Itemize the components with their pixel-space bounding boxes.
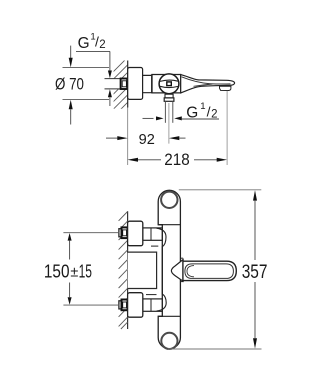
92 dimension: [106, 137, 118, 139]
top union pipe: [143, 228, 162, 240]
svg-text:1: 1: [200, 101, 205, 112]
top union flare into body: [157, 228, 167, 247]
svg-text:92: 92: [139, 131, 155, 148]
wall hatch strokes (front view): [119, 212, 128, 330]
svg-text:357: 357: [242, 262, 268, 283]
dia 70 dimension arrows: [70, 46, 72, 59]
center square: [167, 82, 172, 86]
G 1/2 label (top): [78, 31, 106, 51]
G 1/2 outlet dimension arrows: [143, 117, 154, 119]
top union nut behind wall: [119, 229, 122, 237]
handle lower edge line: [182, 77, 231, 84]
bottom union flare into body: [157, 294, 167, 311]
inlet pipe stub behind wall: [105, 79, 121, 89]
svg-text:/: /: [207, 103, 211, 119]
outlet centerline: [168, 103, 170, 144]
escutcheon (side view): [128, 68, 143, 100]
spout nozzle (mousseur): [220, 86, 231, 90]
top union escutcheon: [128, 221, 143, 246]
handle + spout (side view): [181, 75, 235, 93]
G 1/2 label (outlet): [186, 101, 217, 122]
body left edge middle segment: [161, 246, 163, 294]
handle lever pill (front view): [183, 261, 236, 280]
wall face extension line down to dimensions: [127, 108, 129, 166]
handle pill inner line: [185, 264, 234, 279]
bottom union nut behind wall: [119, 301, 122, 309]
top cap inner circle: [161, 192, 177, 208]
wall hatching (side view): [110, 54, 131, 128]
svg-text:2: 2: [99, 39, 105, 51]
G1/2 top label underline: [76, 50, 110, 52]
nipple dimension leader vertical + arrows: [109, 51, 111, 71]
outlet pipe lines: [164, 101, 166, 123]
svg-text:150: 150: [44, 261, 70, 281]
threaded inlet nipple G1/2: [121, 79, 128, 90]
dia 70 extension lines: [63, 67, 110, 69]
bottom cap inner circle: [161, 333, 177, 349]
spout upper edge line: [194, 84, 213, 86]
150 +/- 15 dimension: [63, 232, 119, 234]
bottom union pipe: [143, 299, 162, 311]
wall face line (side view): [127, 61, 129, 108]
lens chords inside circle: [160, 80, 178, 81]
wall line (front view): [127, 211, 129, 329]
svg-text:15: 15: [79, 261, 92, 281]
bottom union escutcheon: [128, 293, 143, 318]
shower outlet neck: [165, 94, 173, 98]
svg-text:218: 218: [164, 151, 189, 169]
218 right extension line from spout outlet: [226, 91, 228, 165]
svg-text:±: ±: [70, 265, 78, 281]
body tube (side view): [143, 75, 181, 93]
357 dimension: [179, 189, 261, 191]
seam line top: [158, 224, 180, 226]
handle cone: [171, 260, 183, 282]
svg-text:2: 2: [211, 109, 217, 121]
svg-text:G: G: [78, 35, 90, 52]
218 dimension: [127, 158, 138, 162]
valve circle (cartridge, side view): [159, 74, 179, 94]
svg-text:Ø 70: Ø 70: [55, 76, 84, 94]
handle connector steps: [180, 257, 183, 259]
svg-text:G: G: [186, 105, 198, 122]
rear mounting bracket between unions: [128, 252, 157, 288]
G 1/2 outlet label shaft: [182, 118, 219, 120]
shower outlet collar: [164, 98, 174, 101]
seam line bottom: [158, 315, 180, 317]
faucet body (front view): [158, 190, 180, 348]
